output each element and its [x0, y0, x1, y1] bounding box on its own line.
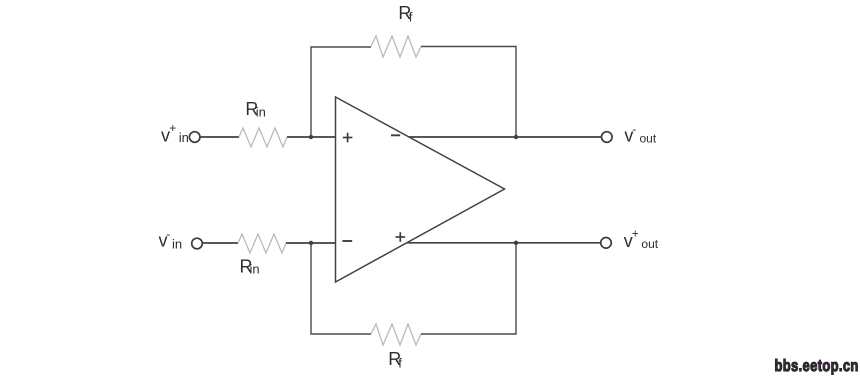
op-amp noninverting output marker + [396, 232, 406, 242]
terminal v-in [192, 238, 203, 249]
terminal v+in [189, 132, 200, 143]
op-amp U1 triangle [336, 97, 505, 282]
svg-text:-: - [632, 122, 636, 136]
resistor Rf (top) [371, 36, 421, 57]
terminal v+out [601, 238, 612, 249]
resistor Rf (bottom) [371, 324, 421, 345]
wire bottom input segment left [203, 242, 239, 244]
svg-text:out: out [640, 131, 657, 145]
watermark bbs.eetop.cn [775, 357, 859, 375]
wire top input segment left [200, 136, 239, 138]
svg-text:in: in [256, 105, 266, 120]
svg-text:out: out [641, 237, 658, 251]
wire top output [409, 136, 602, 138]
svg-text:in: in [172, 237, 182, 252]
wire bottom feedback right horizontal+vertical [421, 243, 516, 334]
svg-text:-: - [166, 227, 170, 241]
wire bottom output [407, 242, 602, 244]
terminal v-out [602, 132, 613, 143]
node junction top input [309, 135, 313, 139]
resistor Rin (top) [239, 128, 287, 147]
wire bottom feedback left vertical+horizontal [311, 243, 371, 334]
op-amp noninverting input marker + [343, 133, 353, 143]
wire bottom input segment right [286, 242, 336, 244]
svg-text:f: f [398, 356, 402, 371]
svg-text:+: + [632, 227, 639, 241]
wire top feedback left vertical+horizontal [311, 47, 371, 137]
svg-text:in: in [250, 262, 260, 277]
resistor Rin (bottom) [238, 234, 286, 253]
node junction bottom input [309, 241, 313, 245]
op-amp inverting output marker - [391, 134, 400, 136]
node junction bottom output [514, 241, 518, 245]
svg-text:in: in [179, 130, 189, 145]
svg-text:f: f [409, 10, 413, 25]
svg-text:+: + [169, 121, 176, 135]
op-amp inverting input marker - [342, 240, 352, 242]
wire top feedback right horizontal+vertical [421, 47, 516, 138]
svg-text:bbs.eetop.cn: bbs.eetop.cn [775, 357, 859, 375]
wire top input segment right [287, 136, 336, 138]
node junction top output [514, 135, 518, 139]
